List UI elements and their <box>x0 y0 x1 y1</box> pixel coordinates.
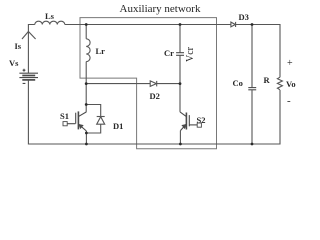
label minus Vo <box>287 95 291 107</box>
label Is <box>15 41 22 51</box>
transistor S2 <box>180 112 201 131</box>
label Vs <box>9 58 18 68</box>
resistor R <box>277 77 282 90</box>
node D2/Cr <box>179 82 182 85</box>
wire Cr branch top <box>179 25 181 53</box>
wire D1 bottom <box>86 124 100 133</box>
node S1 emitter/D1 <box>85 132 88 135</box>
current arrow Is <box>22 32 36 40</box>
wire Co branch top <box>251 25 253 88</box>
label D1 <box>113 121 123 131</box>
label S1 <box>60 111 69 121</box>
battery plus mark <box>23 69 26 84</box>
node rail/Lr <box>85 23 88 26</box>
diode D3 <box>231 22 235 27</box>
wire Lr to S1 <box>85 62 87 112</box>
wire D1 branch top <box>86 105 101 117</box>
node Co bottom rail <box>251 143 254 146</box>
diode D2 <box>150 81 156 87</box>
transistor S1 <box>63 111 86 131</box>
wire node to D2 <box>86 83 150 85</box>
label Lr <box>96 46 105 56</box>
node Lr/D2 <box>85 82 88 85</box>
node S2 bottom rail <box>179 143 182 146</box>
label Co <box>233 78 243 88</box>
title Auxiliary network <box>119 3 201 15</box>
inductor Lr <box>86 39 90 62</box>
node rail/Co <box>251 23 254 26</box>
capacitor Co <box>248 88 256 90</box>
auxiliary network box outline <box>80 18 217 149</box>
label Vo <box>286 79 296 89</box>
battery minus mark <box>23 82 26 84</box>
wire left rail lower <box>28 80 280 144</box>
wire D2 to Cr branch <box>157 83 180 85</box>
inductor Ls <box>35 21 65 24</box>
wire Cr to S2 <box>179 55 181 112</box>
battery Vs <box>19 73 38 80</box>
label D3 <box>239 12 249 22</box>
wire top rail left stub <box>28 25 34 74</box>
capacitor Cr <box>176 53 184 56</box>
node D1 top <box>85 103 88 106</box>
label R <box>264 75 270 85</box>
diode D1 <box>97 116 105 118</box>
wire Co bottom <box>251 90 253 144</box>
wire top rail right <box>236 25 280 78</box>
wire Lr branch top <box>85 25 87 39</box>
label plus Vo <box>287 58 293 69</box>
label D2 <box>150 91 160 101</box>
label Cr <box>164 48 174 58</box>
wire S2 emitter to bottom rail <box>179 131 181 144</box>
node S1 bottom rail <box>85 143 88 146</box>
label Ls <box>45 11 54 21</box>
label Vcr <box>185 47 196 62</box>
wire S1 emitter to bottom rail <box>85 131 87 144</box>
wire top rail to D3 <box>65 24 231 26</box>
label S2 <box>197 115 206 125</box>
node rail/Cr <box>179 23 182 26</box>
